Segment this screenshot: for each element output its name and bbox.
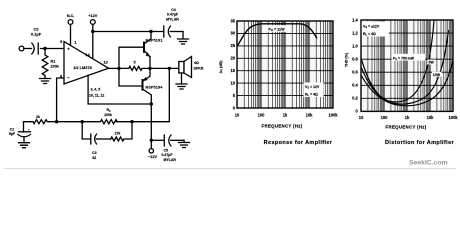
- chart2 curve 750mW: [361, 21, 434, 103]
- svg-text:5W: 5W: [429, 61, 435, 65]
- chart1 scan wash: [237, 21, 333, 108]
- svg-text:C4: C4: [171, 8, 176, 12]
- svg-text:1.0: 1.0: [352, 43, 358, 48]
- svg-text:1.2: 1.2: [352, 30, 358, 35]
- svg-text:1/2 LM378: 1/2 LM378: [73, 65, 92, 70]
- chart1 y tick labels: [230, 18, 235, 110]
- chart1 y axis title AV (dB): [219, 60, 224, 74]
- chart2 x axis title: [386, 124, 427, 129]
- label R1 100k: [51, 60, 60, 69]
- resistor 5 ohm: [119, 66, 150, 70]
- chart2 curve 10W: [361, 61, 453, 106]
- output wire to speaker: [150, 67, 179, 69]
- wire input to C2: [24, 48, 32, 50]
- svg-text:MYLAR: MYLAR: [166, 17, 179, 21]
- svg-text:VS = ±12V: VS = ±12V: [363, 25, 380, 30]
- wire pin 8 to node: [57, 78, 64, 122]
- svg-text:R1: R1: [51, 60, 56, 64]
- node A (bases): [117, 67, 120, 70]
- svg-text:0.6: 0.6: [352, 70, 358, 75]
- node output feedback tap: [168, 67, 171, 70]
- svg-text:THD (%): THD (%): [345, 52, 349, 67]
- feedback wire from output node down and left: [132, 68, 169, 121]
- ground pins wire (3,4,5,10,11,12): [88, 75, 151, 104]
- chart1 caption: [264, 140, 333, 146]
- svg-text:0.47µF: 0.47µF: [167, 13, 179, 17]
- chart1 response curve: [237, 24, 317, 47]
- svg-text:SeekIC.com: SeekIC.com: [409, 160, 448, 167]
- chart2 y axis title THD (%): [345, 52, 349, 67]
- chart2 5W label: [428, 60, 436, 65]
- node ground-pins to minus rail: [150, 102, 153, 105]
- svg-text:100: 100: [381, 115, 389, 120]
- svg-text:Response for Amplifier: Response for Amplifier: [264, 140, 333, 146]
- chart2 grid minor vertical lines: [368, 20, 452, 111]
- svg-text:100: 100: [258, 113, 266, 118]
- node inverting input: [55, 120, 58, 123]
- chart1 grid major vertical decade lines: [261, 21, 309, 108]
- wire +12V down to rail: [92, 24, 94, 31]
- wire node A down to Q2 base: [119, 68, 142, 86]
- watermark SeekIC.com: [409, 160, 448, 167]
- svg-text:5µF: 5µF: [9, 132, 16, 136]
- svg-text:1.4: 1.4: [352, 17, 358, 22]
- svg-text:+: +: [28, 128, 30, 132]
- resistor 27k: [111, 122, 132, 141]
- svg-text:SPKR: SPKR: [194, 67, 204, 71]
- svg-text:C5: C5: [164, 149, 169, 153]
- chart2 x tick labels: [359, 115, 459, 120]
- chart1 VS RL annotation: [304, 83, 324, 98]
- op-amp U1 1/2 LM378: [64, 42, 109, 85]
- resistor Rp 100k: [82, 120, 132, 124]
- node B (emitters/output): [148, 67, 151, 70]
- N.C. terminal: [68, 20, 73, 25]
- node +12V rail: [91, 30, 94, 33]
- wire C3 to 27k: [96, 138, 110, 140]
- svg-text:25: 25: [230, 43, 235, 48]
- svg-text:30: 30: [230, 31, 235, 36]
- chart2 horizontal gridlines: [361, 33, 453, 98]
- svg-text:C3: C3: [92, 151, 97, 155]
- ground under C1: [19, 143, 30, 148]
- chart1 horizontal gridlines: [237, 33, 333, 95]
- pin 1 wire to N.C.: [70, 24, 72, 45]
- svg-text:VS = 12V: VS = 12V: [305, 85, 320, 90]
- node feedback right: [130, 120, 133, 123]
- svg-text:1k: 1k: [405, 115, 410, 120]
- svg-text:27k: 27k: [115, 131, 121, 135]
- svg-text:4Ω: 4Ω: [194, 61, 199, 65]
- chart1 x tick labels: [235, 113, 339, 118]
- svg-text:+12V: +12V: [88, 14, 97, 18]
- svg-text:−: −: [67, 76, 70, 82]
- chart1 x axis title: [262, 124, 303, 129]
- ground pins label: [89, 88, 104, 98]
- svg-text:1: 1: [75, 41, 77, 45]
- svg-text:10W: 10W: [433, 73, 441, 77]
- resistor 2k: [24, 120, 57, 124]
- node feedback left: [81, 120, 84, 123]
- svg-text:NSP5191: NSP5191: [146, 38, 163, 42]
- svg-text:100k: 100k: [448, 115, 458, 120]
- svg-text:−12V: −12V: [148, 154, 158, 159]
- svg-text:10: 10: [235, 113, 240, 118]
- pin 13 label: [104, 61, 108, 65]
- wire C2 to node: [41, 48, 65, 50]
- svg-text:82: 82: [92, 156, 96, 160]
- ground at C5: [179, 140, 190, 147]
- svg-text:0.2: 0.2: [352, 96, 358, 101]
- pin 9 label: [60, 40, 62, 44]
- svg-text:3, 4, 5: 3, 4, 5: [91, 88, 101, 92]
- svg-text:1k: 1k: [283, 113, 288, 118]
- transistor Q1 NSP5191: [144, 32, 151, 69]
- svg-text:10: 10: [230, 80, 235, 85]
- scan smear line: [4, 168, 456, 170]
- chart2 10W label: [432, 72, 442, 77]
- chart2 plot border: [361, 20, 453, 111]
- transistor Q2 NSP5194: [143, 68, 152, 140]
- pin 14 label: [86, 53, 91, 57]
- svg-text:13: 13: [104, 61, 108, 65]
- ground under R1: [40, 79, 51, 84]
- svg-text:FREQUENCY (Hz): FREQUENCY (Hz): [386, 124, 427, 129]
- svg-text:MYLAR: MYLAR: [164, 158, 177, 162]
- svg-text:10: 10: [359, 115, 364, 120]
- wire -12V node to C5: [151, 139, 164, 141]
- svg-text:5: 5: [134, 61, 136, 65]
- pin 1 label: [75, 41, 77, 45]
- capacitor C4: [164, 26, 183, 37]
- svg-text:10k: 10k: [427, 115, 435, 120]
- chart1 grid minor vertical lines: [244, 21, 332, 108]
- resistor R1: [42, 49, 48, 79]
- wire node A up to Q1 base: [119, 47, 143, 68]
- capacitor C3: [91, 134, 97, 144]
- svg-text:9: 9: [60, 40, 62, 44]
- svg-text:35: 35: [230, 18, 235, 23]
- svg-text:AV (dB): AV (dB): [219, 60, 224, 74]
- terminal -12V: [150, 140, 152, 148]
- svg-text:10k: 10k: [306, 113, 314, 118]
- pin 14 wire: [92, 32, 94, 59]
- svg-text:10, 11, 12: 10, 11, 12: [89, 94, 104, 98]
- wire feedback to inverting node: [57, 121, 83, 123]
- svg-text:PO = 750 mW: PO = 750 mW: [393, 56, 415, 61]
- svg-text:2k: 2k: [36, 115, 40, 119]
- svg-text:NSP5194: NSP5194: [146, 85, 163, 89]
- chart2 PO=750mW label: [392, 54, 426, 61]
- chart2 VS RL annotation: [362, 22, 389, 37]
- svg-text:RL = 4Ω: RL = 4Ω: [305, 93, 318, 98]
- speaker SPKR: [179, 57, 192, 78]
- svg-text:+: +: [67, 46, 70, 51]
- node at R1 top: [43, 47, 46, 50]
- svg-text:20: 20: [230, 56, 235, 61]
- capacitor C2: [32, 43, 38, 54]
- +12V rail wire: [93, 31, 164, 33]
- chart2 caption: [385, 140, 455, 146]
- svg-text:N.C.: N.C.: [67, 14, 75, 18]
- svg-text:0.1µF: 0.1µF: [31, 32, 42, 37]
- input terminal J1: [19, 46, 24, 51]
- capacitor C5: [164, 135, 184, 146]
- label 5: [134, 61, 136, 65]
- pin 8 label: [60, 75, 62, 79]
- chart1 plot border: [237, 21, 333, 108]
- svg-text:Distortion for Amplifier: Distortion for Amplifier: [385, 140, 455, 146]
- +12V terminal: [90, 20, 95, 25]
- svg-text:100k: 100k: [104, 113, 112, 117]
- ground at C4: [178, 32, 189, 45]
- svg-text:100k: 100k: [328, 113, 338, 118]
- svg-text:FREQUENCY (Hz): FREQUENCY (Hz): [262, 124, 303, 129]
- svg-text:0.8: 0.8: [352, 57, 358, 62]
- chart2 scan wash: [361, 20, 453, 111]
- capacitor C1 (5uF): [18, 122, 31, 143]
- node Q1 collector at rail: [149, 30, 152, 33]
- minus rail wire to -12V node: [150, 139, 153, 142]
- svg-text:15: 15: [230, 68, 235, 73]
- svg-text:0.4: 0.4: [352, 83, 358, 88]
- chart2 curve 5W: [361, 30, 449, 104]
- label C2 value: [31, 27, 42, 37]
- svg-text:100k: 100k: [51, 65, 60, 69]
- svg-text:RL = 4Ω: RL = 4Ω: [363, 32, 376, 37]
- output wire pin13 to node A: [109, 67, 120, 69]
- chart2 y tick labels: [352, 17, 358, 113]
- ground under speaker: [176, 73, 187, 89]
- svg-text:0.47µF: 0.47µF: [162, 153, 174, 157]
- branch C3 + 27k: [82, 122, 90, 139]
- svg-text:C1: C1: [10, 128, 15, 132]
- chart1 PO=11W label: [263, 25, 291, 32]
- chart2 grid major vertical decade lines: [384, 20, 430, 111]
